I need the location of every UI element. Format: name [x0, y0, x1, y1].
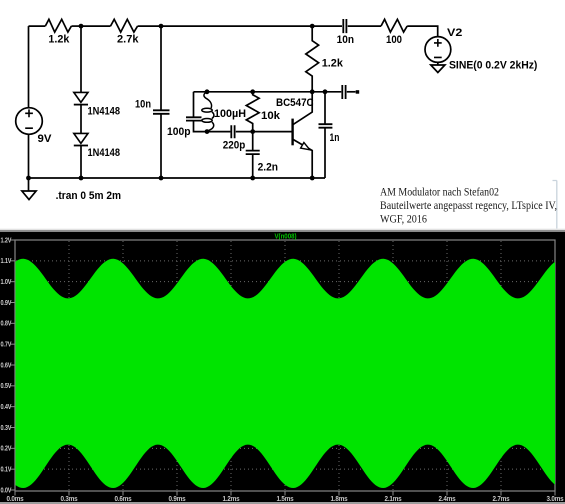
tank top wire [194, 91, 313, 93]
svg-text:WGF, 2016: WGF, 2016 [380, 212, 427, 226]
wire node B to node C [161, 25, 312, 27]
y axis labels [1, 237, 12, 494]
svg-text:0.4V: 0.4V [1, 404, 12, 411]
wire C1 to bottom rail [160, 114, 162, 178]
capacitor C5 2.2n [246, 151, 260, 155]
node Q1 emitter junction [310, 176, 315, 181]
pane separator [0, 229, 565, 230]
capacitor C4 10n [343, 19, 346, 33]
resistor R3 1.2k [306, 26, 319, 92]
wire node C to C4 [312, 25, 342, 27]
svg-text:0.3ms: 0.3ms [61, 496, 78, 503]
svg-text:1N4148: 1N4148 [88, 147, 121, 159]
node J junction [250, 176, 255, 181]
wire D2 to bottom rail [80, 146, 82, 179]
svg-text:V(n008): V(n008) [275, 234, 297, 241]
node D junction [250, 129, 255, 134]
wire node E right [312, 91, 341, 93]
resistor R5 10k [246, 92, 259, 132]
wire D1 to D2 [80, 105, 82, 134]
wire left rail down [28, 26, 30, 108]
inductor L1 100uH [204, 92, 212, 108]
svg-text:9V: 9V [38, 133, 53, 145]
wire top rail left segment [29, 25, 46, 27]
node B junction [159, 24, 164, 29]
voltage source V2 [425, 37, 451, 63]
svg-text:1N4148: 1N4148 [88, 105, 121, 117]
wire R1 to node A [71, 25, 81, 27]
capacitor C1 10n [153, 110, 170, 114]
wire C7 to bottom rail [324, 128, 326, 178]
svg-text:.tran 0 5m 2m: .tran 0 5m 2m [56, 190, 122, 202]
node G junction [26, 176, 31, 181]
svg-text:1.1V: 1.1V [1, 258, 12, 265]
node L1 top junction [205, 89, 210, 94]
annotation box edge [553, 181, 557, 229]
svg-text:1.0V: 1.0V [1, 279, 12, 286]
svg-text:2.7ms: 2.7ms [493, 496, 510, 503]
svg-text:0.0V: 0.0V [1, 487, 12, 494]
plot border [15, 240, 555, 491]
capacitor C7 1n [319, 124, 333, 128]
diode D2 1N4148 [74, 133, 88, 143]
resistor R4 100 [381, 19, 407, 32]
wire R4 to V2 [407, 26, 438, 37]
wire C4 to R4 [348, 25, 381, 27]
svg-text:1.8ms: 1.8ms [331, 496, 348, 503]
svg-text:BC547C: BC547C [276, 97, 314, 109]
svg-text:0.9ms: 0.9ms [169, 496, 186, 503]
trace V(n008) AM waveform [16, 259, 556, 488]
wire node D down to C5 [252, 132, 254, 150]
wire C5 to bottom rail [252, 154, 254, 178]
svg-text:3.0ms: 3.0ms [547, 496, 564, 503]
pane bottom edge [0, 502, 565, 504]
svg-text:Bauteilwerte angepasst regency: Bauteilwerte angepasst regency, LTspice … [380, 198, 557, 212]
node A junction [79, 24, 84, 29]
svg-text:100µH: 100µH [214, 108, 246, 120]
wire 9V to bottom rail [28, 134, 30, 191]
svg-text:2.2n: 2.2n [258, 162, 279, 174]
output terminal [356, 90, 360, 94]
svg-text:1.2k: 1.2k [48, 33, 70, 45]
svg-text:100p: 100p [167, 126, 191, 138]
svg-text:1.2ms: 1.2ms [223, 496, 240, 503]
node E junction [323, 89, 328, 94]
wire node A down to D1 [80, 26, 82, 92]
wire C6 to terminal [347, 91, 356, 93]
capacitor C3 220p [231, 125, 234, 138]
svg-text:SINE(0 0.2V 2kHz): SINE(0 0.2V 2kHz) [449, 60, 538, 72]
svg-text:2.4ms: 2.4ms [439, 496, 456, 503]
wire tank left down [193, 92, 195, 117]
svg-text:220p: 220p [223, 139, 246, 151]
node H junction [79, 176, 84, 181]
svg-text:0.1V: 0.1V [1, 467, 12, 474]
svg-text:1.2k: 1.2k [322, 57, 344, 69]
transistor Q1 BC547C [291, 119, 293, 146]
ground main [22, 191, 36, 200]
wire C2 to tank bottom [194, 121, 231, 132]
svg-text:0.2V: 0.2V [1, 446, 12, 453]
diode D1 1N4148 [74, 92, 88, 102]
svg-text:10k: 10k [261, 110, 281, 122]
node L1 bottom junction [205, 129, 210, 134]
plot gridlines [16, 241, 555, 491]
svg-text:0.0ms: 0.0ms [7, 496, 24, 503]
svg-text:10n: 10n [337, 34, 355, 46]
axis ticks [11, 240, 555, 496]
svg-text:0.6V: 0.6V [1, 362, 12, 369]
annotation text [380, 185, 557, 226]
node C junction [310, 24, 315, 29]
svg-text:0.8V: 0.8V [1, 321, 12, 328]
waveform pane background [0, 232, 565, 502]
wire node E down to C7 [324, 92, 326, 124]
voltage source V1 9V [16, 108, 43, 135]
node I junction [159, 176, 164, 181]
svg-text:AM Modulator nach Stefan02: AM Modulator nach Stefan02 [380, 185, 499, 199]
svg-text:10n: 10n [135, 99, 151, 111]
node R5 top junction [250, 89, 255, 94]
svg-text:V2: V2 [447, 27, 462, 39]
ground below V2 [431, 62, 445, 72]
svg-text:0.3V: 0.3V [1, 425, 12, 432]
resistor R1 1.2k [45, 19, 71, 32]
x axis labels [7, 496, 564, 503]
svg-text:1n: 1n [330, 132, 340, 144]
wire R2 to node B [138, 25, 161, 27]
svg-text:1.2V: 1.2V [1, 237, 12, 244]
capacitor C6 output [342, 85, 345, 99]
wire C3 to node D [236, 131, 292, 133]
svg-text:1.5ms: 1.5ms [277, 496, 294, 503]
svg-text:2.1ms: 2.1ms [385, 496, 402, 503]
node Q1 collector junction [310, 89, 315, 94]
resistor R2 2.7k [111, 19, 138, 32]
svg-text:0.6ms: 0.6ms [115, 496, 132, 503]
wire node A to R2 [81, 25, 111, 27]
capacitor C2 100p [186, 117, 202, 120]
svg-text:2.7k: 2.7k [117, 33, 139, 45]
wire node B down to C1 [160, 26, 162, 110]
svg-text:100: 100 [386, 34, 402, 46]
svg-text:0.7V: 0.7V [1, 342, 12, 349]
svg-text:0.9V: 0.9V [1, 300, 12, 307]
bottom rail wire [29, 177, 326, 179]
svg-text:0.5V: 0.5V [1, 383, 12, 390]
